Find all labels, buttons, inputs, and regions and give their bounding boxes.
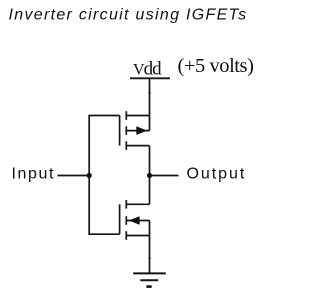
nub on ground stem — [148, 257, 150, 259]
svg-text:Inverter circuit using IGFETs: Inverter circuit using IGFETs — [9, 7, 248, 24]
nub on Vdd stem — [148, 92, 150, 94]
transistor Q2 gate bar — [119, 204, 121, 234]
ground bar 3 — [146, 285, 151, 288]
ground bar 1 — [133, 272, 166, 274]
arrow Q1 substrate (points right) — [136, 126, 147, 135]
transistor Q2 N-channel IGFET: drain plate — [125, 200, 127, 209]
transistor Q1 gate bar — [119, 116, 121, 146]
transistor Q1 drain plate — [125, 141, 127, 150]
svg-text:Output: Output — [187, 166, 247, 183]
wire Vdd stem — [149, 78, 151, 130]
wire Input lead — [58, 175, 90, 177]
ground bar 2 — [140, 279, 158, 281]
wire gate bracket — [89, 116, 119, 235]
arrow Q2 substrate (points left) — [129, 216, 140, 225]
svg-text:Input: Input — [12, 166, 56, 183]
Vdd terminal bar — [130, 77, 170, 79]
transistor Q2 substrate plate with arrow — [125, 216, 127, 225]
svg-text:Vdd: Vdd — [133, 59, 162, 80]
junction dot output node — [147, 173, 152, 178]
transistor Q1 substrate plate with arrow — [125, 126, 127, 135]
transistor Q2 source plate — [125, 231, 127, 240]
svg-text:(+5 volts): (+5 volts) — [178, 55, 254, 77]
wire Output lead — [150, 175, 179, 177]
junction dot input node — [87, 173, 92, 178]
transistor Q1 P-channel IGFET: source plate — [125, 111, 127, 120]
wire drain rail Q1 to Q2 — [149, 146, 151, 205]
wire source rail Q2 to ground — [149, 221, 151, 274]
